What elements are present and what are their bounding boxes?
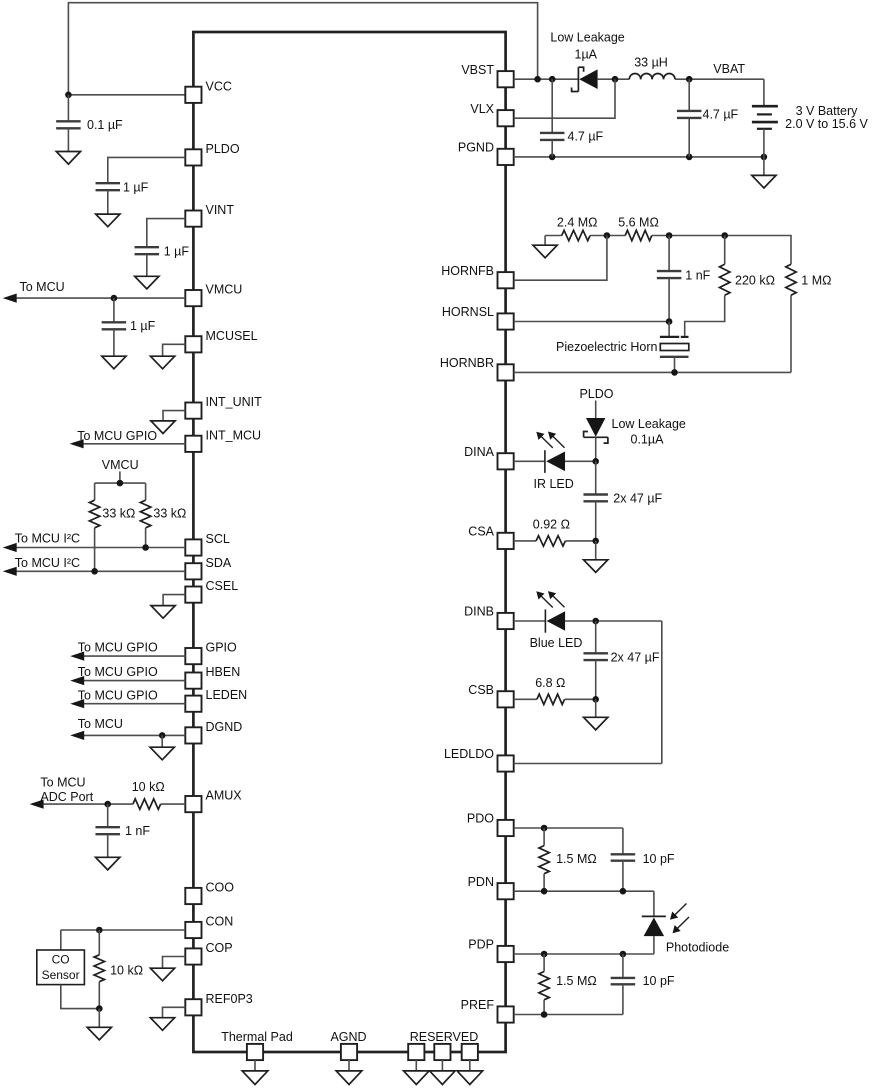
svg-text:SDA: SDA [206,556,232,570]
wire battery gnd stem [763,157,765,176]
wire D1 to L1 [598,78,630,80]
CO Sensor [37,950,85,985]
wire SDA to MCU I2C [3,556,186,576]
junction DGND [159,732,166,739]
pin CON [185,915,233,939]
svg-text:1 MΩ: 1 MΩ [801,274,831,288]
svg-text:6.8 Ω: 6.8 Ω [535,676,565,690]
resistor R1 33k [89,483,135,571]
ground C2 [96,214,120,227]
pin VMCU [185,283,242,307]
svg-text:33 kΩ: 33 kΩ [153,506,186,520]
svg-text:2.4 MΩ: 2.4 MΩ [557,216,598,230]
resistor R2 33k [140,483,186,547]
svg-text:PLDO: PLDO [206,142,240,156]
wire SCL to MCU I2C [3,532,186,552]
svg-text:PDO: PDO [467,812,494,826]
wire CO sensor top [60,930,62,950]
junction PGND/C6 [549,154,556,161]
junction SCL/R2 [142,544,149,551]
junction VBST/top loop [534,76,541,83]
pin DINB [464,605,514,630]
pin Thermal Pad [221,1030,293,1060]
wire CON to CO sensor [61,929,186,931]
junction R7 top [721,232,728,239]
wire R7 to horn right plate [685,295,725,336]
pin HORNBR [440,356,514,381]
pin PGND [458,141,514,166]
wire CSEL gnd hook [163,595,185,606]
capacitor C9 2x47uF [583,461,662,541]
ground DGND [150,747,174,760]
piezo horn right plate [681,336,689,338]
capacitor C3 1uF [135,244,190,276]
svg-text:Sensor: Sensor [42,968,80,982]
capacitor C4 1uF [102,298,156,356]
wire PDO [514,827,623,829]
svg-text:PREF: PREF [461,998,495,1012]
capacitor C12 10pF [611,954,675,1015]
wire VMCU to MCU [3,280,186,303]
junction VBAT/C7 [686,76,693,83]
wire horn top rail [652,236,791,265]
capacitor C1 0.1uF [56,95,123,152]
pin RESERVED 2 [434,1044,450,1060]
resistor R3 10k [108,780,186,809]
wire DGND gnd stem [161,735,163,747]
pin HBEN [185,665,240,689]
net label VMCU [102,458,139,483]
junction PDN/R11 [541,888,548,895]
wire REF0P3 gnd hook [163,1007,186,1017]
svg-text:PGND: PGND [458,141,494,155]
capacitor C10 2x47uF [583,621,659,699]
svg-text:4.7 µF: 4.7 µF [703,108,739,122]
wire CSB gnd stem [595,699,597,717]
svg-text:1.5 MΩ: 1.5 MΩ [556,852,597,866]
ground C3 [135,276,159,289]
pin CSB [468,683,513,708]
svg-text:5.6 MΩ: 5.6 MΩ [618,216,659,230]
pin GPIO [185,641,237,665]
wire COP gnd hook [163,957,186,969]
svg-text:VMCU: VMCU [102,458,139,472]
svg-text:IR LED: IR LED [534,477,574,491]
wire LEDLDO [514,763,662,765]
ground MCUSEL [151,356,175,369]
svg-text:2.0 V to 15.6 V: 2.0 V to 15.6 V [785,117,868,131]
svg-text:Photodiode: Photodiode [666,940,729,954]
wire MCUSEL gnd hook [163,344,186,356]
svg-text:Blue LED: Blue LED [530,636,583,650]
wire GPIO to MCU [70,641,185,661]
ground REF0P3 [150,1018,174,1031]
capacitor C6 4.7uF [540,79,604,157]
ground battery [752,175,776,188]
inductor L1 33uH [629,56,675,80]
svg-text:ADC Port: ADC Port [40,790,93,804]
wire Thermal Pad gnd [254,1060,256,1071]
wire RESERVED2 gnd [441,1060,443,1071]
wire DINA [514,460,545,462]
photodiode D5 [642,891,729,954]
wire RESERVED3 gnd [469,1060,471,1071]
pin PREF [461,998,514,1023]
svg-text:INT_UNIT: INT_UNIT [206,395,263,409]
pin HORNFB [441,264,513,289]
svg-text:4.7 µF: 4.7 µF [568,130,604,144]
wire VBST [514,78,579,80]
resistor R8 1M [786,264,832,372]
svg-text:0.92 Ω: 0.92 Ω [533,518,570,532]
wire PGND [514,156,764,158]
junction VLX node [612,76,619,83]
junction VMCU rail [117,480,124,487]
junction DINB/C10 [592,618,599,625]
ground RESERVED 3 [457,1071,483,1085]
junction PGND/battery [761,154,768,161]
svg-text:To MCU I²C: To MCU I²C [15,532,80,546]
wire HORNFB [514,236,607,281]
wire PDP [514,953,654,955]
junction C8 top [666,232,673,239]
pin CSEL [185,579,238,603]
pin DGND [185,720,242,744]
svg-text:REF0P3: REF0P3 [206,992,253,1006]
svg-text:To MCU GPIO: To MCU GPIO [77,429,157,443]
svg-text:To MCU: To MCU [40,776,85,790]
junction CSB/C10 [592,696,599,703]
wire CO sensor bottom [61,985,100,1009]
svg-text:VINT: VINT [206,203,235,217]
diode D1 schottky low leakage 1uA [550,31,624,92]
pin RESERVED 1 [408,1044,424,1060]
pin VCC [185,79,232,103]
junction HORNBR/horn [671,369,678,376]
svg-text:To MCU: To MCU [20,280,65,294]
wire HORNBR [514,371,791,373]
pin LEDLDO [444,747,514,772]
svg-text:PLDO: PLDO [579,387,613,401]
resistor R9 0.92 [514,518,596,547]
wire R4 gnd stem [98,1009,100,1028]
svg-text:To MCU: To MCU [78,717,123,731]
LED D3 IR [534,432,596,492]
pin INT_UNIT [185,395,262,419]
wire HBEN to MCU [70,665,185,685]
ground CSB [584,717,608,730]
svg-text:COO: COO [206,881,235,895]
svg-text:INT_MCU: INT_MCU [206,428,262,442]
pin PDN [468,875,514,900]
wire DGND to MCU [70,717,185,740]
ground C1 [56,152,80,165]
svg-text:Piezoelectric Horn: Piezoelectric Horn [556,340,657,354]
svg-text:1 µF: 1 µF [123,180,149,194]
svg-text:2x 47 µF: 2x 47 µF [611,651,660,665]
svg-text:LEDLDO: LEDLDO [444,747,494,761]
svg-text:To MCU GPIO: To MCU GPIO [78,665,158,679]
svg-text:DINB: DINB [464,605,494,619]
pin COO [185,881,234,905]
pin DINA [464,445,514,470]
piezo horn X1 body [556,340,689,354]
svg-text:220 kΩ: 220 kΩ [735,274,775,288]
ground C4 [102,356,126,369]
pin SCL [185,532,230,556]
svg-text:CSEL: CSEL [206,579,239,593]
svg-text:LEDEN: LEDEN [206,688,248,702]
battery BT1 3V [752,79,869,157]
pin RESERVED 3 [462,1044,478,1060]
svg-text:CSA: CSA [468,525,494,539]
piezo horn bottom plate [660,356,689,358]
junction HORNFB node [604,232,611,239]
ground RESERVED 1 [404,1071,430,1085]
svg-text:DGND: DGND [206,720,243,734]
junction PDP/C12 [620,951,627,958]
svg-text:RESERVED: RESERVED [410,1030,479,1044]
svg-text:1.5 MΩ: 1.5 MΩ [556,974,597,988]
resistor R7 220k [720,236,775,296]
ground AGND [336,1071,362,1085]
ground C5 [96,857,120,870]
wire R5-R6 [590,235,625,237]
ground RESERVED 2 [430,1071,456,1085]
junction DINA/C9 [592,458,599,465]
svg-text:Low Leakage: Low Leakage [612,417,686,431]
label RESERVED [410,1030,479,1044]
pin AMUX [185,789,242,813]
diode D2 schottky low leakage 0.1uA [584,401,686,462]
svg-text:To MCU GPIO: To MCU GPIO [78,641,158,655]
resistor R11 1.5M [539,828,597,891]
wire DINB loop to LEDLDO [661,621,663,764]
junction VCC/C1 [65,92,72,99]
svg-text:AMUX: AMUX [206,789,243,803]
pin VBST [461,63,513,87]
wire PLDO [108,157,186,183]
capacitor C5 1nF [95,804,150,857]
junction AMUX/C5 [104,801,111,808]
resistor R10 6.8 [514,676,596,705]
svg-text:10 kΩ: 10 kΩ [110,964,143,978]
capacitor C2 1uF [96,180,149,214]
svg-text:DINA: DINA [464,445,495,459]
wire PDN [514,890,654,892]
pin AGND [330,1030,366,1060]
resistor R6 5.6M [618,216,659,241]
wire RESERVED1 gnd [415,1060,417,1071]
junction PDN/C11 [620,888,627,895]
svg-text:1 nF: 1 nF [685,269,710,283]
ground CSEL [151,606,175,619]
pin REF0P3 [185,992,252,1016]
pin VINT [185,203,234,227]
svg-text:VMCU: VMCU [206,283,243,297]
svg-text:10 pF: 10 pF [643,974,675,988]
svg-text:COP: COP [206,941,233,955]
resistor R4 10k [94,930,143,1009]
ground COP [150,968,174,981]
wire AMUX to ADC [30,776,108,809]
junction PREF/R12 [541,1011,548,1018]
svg-text:GPIO: GPIO [206,641,238,655]
svg-text:AGND: AGND [330,1030,366,1044]
svg-text:10 pF: 10 pF [643,852,675,866]
junction HORNSL/C8 [666,318,673,325]
pin INT_MCU [185,428,261,452]
wire VMCU rail [95,482,146,484]
ground CO sensor [87,1027,111,1040]
svg-text:HORNFB: HORNFB [441,264,494,278]
svg-text:10 kΩ: 10 kΩ [132,780,165,794]
IC body U1 [193,32,505,1052]
wire INT_MCU to MCU GPIO [70,429,186,448]
svg-text:1 µF: 1 µF [130,319,156,333]
capacitor C11 10pF [611,828,675,891]
ground INT_UNIT [151,421,175,434]
svg-text:CO: CO [52,953,70,967]
svg-text:PDN: PDN [468,875,494,889]
pin CSA [468,525,513,550]
svg-text:1µA: 1µA [575,48,598,62]
wire VINT [147,219,186,248]
junction VMCU/C4 [111,295,118,302]
svg-text:PDP: PDP [468,938,494,952]
pin VLX [470,102,513,127]
wire horn left plate stem [668,322,670,336]
wire INT_UNIT gnd hook [163,411,185,421]
pin PLDO [185,142,240,166]
pin COP [185,941,232,965]
svg-text:33 µH: 33 µH [634,56,668,70]
svg-text:VLX: VLX [470,102,494,116]
net label PLDO [579,387,613,401]
junction CON/R4 [96,927,103,934]
ground CSA [584,560,608,573]
junction CSA/C9 [592,538,599,545]
wire DINB [514,620,546,622]
pin LEDEN [185,688,247,712]
svg-text:To MCU I²C: To MCU I²C [15,556,80,570]
LED D4 Blue [530,591,662,650]
wire HORNSL [514,321,670,323]
svg-text:2x 47 µF: 2x 47 µF [613,491,662,505]
resistor R12 1.5M [539,954,597,1015]
svg-text:CON: CON [206,915,234,929]
wire LEDEN to MCU [70,689,185,709]
pin MCUSEL [185,329,257,353]
pin PDP [468,938,513,963]
svg-text:HBEN: HBEN [206,665,241,679]
svg-text:Thermal Pad: Thermal Pad [221,1030,293,1044]
junction R4 bottom [96,1005,103,1012]
junction PGND/C7 [686,154,693,161]
wire VCC [68,94,185,96]
wire PREF [514,1014,623,1016]
pin HORNSL [442,305,514,330]
svg-text:VBAT: VBAT [713,62,745,76]
junction PDP/R12 [541,951,548,958]
svg-text:0.1µA: 0.1µA [631,433,665,447]
svg-text:VBST: VBST [461,63,494,77]
wire AGND gnd [348,1060,350,1071]
wire VCC to VBST top loop [68,3,537,95]
svg-text:To MCU GPIO: To MCU GPIO [78,689,158,703]
junction SDA/R1 [91,568,98,575]
svg-text:VCC: VCC [206,79,232,93]
svg-text:MCUSEL: MCUSEL [206,329,258,343]
junction PDO/R11 [541,825,548,832]
junction VBST/C6 [549,76,556,83]
pin PDO [467,812,514,837]
wire VLX [514,79,615,118]
capacitor C7 4.7uF [677,79,739,157]
svg-text:33 kΩ: 33 kΩ [102,506,135,520]
wire horn bottom stem [674,357,676,373]
resistor R5 2.4M [545,216,597,241]
svg-text:HORNBR: HORNBR [440,356,494,370]
piezo horn left plate [660,336,679,338]
ground horn divider [533,236,557,258]
pin SDA [185,556,232,580]
wire L1 to battery [675,62,764,79]
svg-text:HORNSL: HORNSL [442,305,494,319]
svg-text:Low Leakage: Low Leakage [550,31,624,45]
svg-text:CSB: CSB [468,683,494,697]
svg-text:1 µF: 1 µF [164,244,190,258]
wire CSA gnd stem [595,541,597,560]
svg-text:0.1 µF: 0.1 µF [87,118,123,132]
capacitor C8 1nF [657,236,711,322]
svg-text:1 nF: 1 nF [125,824,150,838]
svg-text:SCL: SCL [206,532,230,546]
ground Thermal Pad [242,1071,268,1085]
